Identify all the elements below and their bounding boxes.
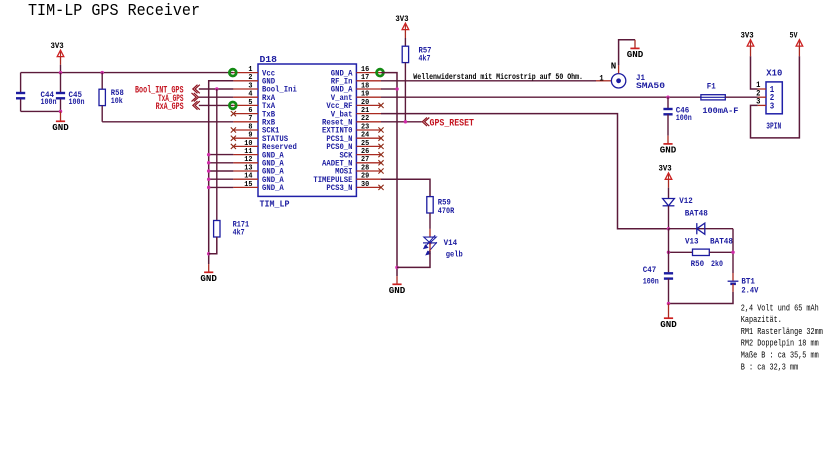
resistor R58 <box>101 73 103 90</box>
pin 7 RxB <box>233 121 258 123</box>
svg-text:16: 16 <box>361 66 370 74</box>
pin 19 V_ant <box>356 96 381 98</box>
svg-text:26: 26 <box>361 148 370 156</box>
node junction gnd bus <box>207 153 211 157</box>
wire GND_A pin to gnd bus <box>209 162 234 164</box>
svg-text:15: 15 <box>244 181 253 189</box>
node junction C46 tap <box>666 95 670 99</box>
pin 17 RF_In <box>356 80 381 82</box>
op-amp U1: IC D18 TIM_LP box <box>258 64 356 196</box>
wire Reset_N net <box>381 121 422 123</box>
wire battery + vertical <box>732 229 734 273</box>
pin 13 GND_A <box>233 170 258 172</box>
ground (battery) <box>668 304 670 319</box>
svg-text:28: 28 <box>361 164 370 172</box>
unconnected pin 30 x-mark <box>378 185 383 190</box>
svg-text:GND_A: GND_A <box>262 184 284 193</box>
svg-text:GND: GND <box>52 123 69 133</box>
svg-text:F1: F1 <box>707 81 716 91</box>
node junction gnd rail <box>59 110 63 114</box>
svg-text:Wellenwiderstand mit Microstri: Wellenwiderstand mit Microstrip auf 50 O… <box>413 72 583 82</box>
ground (under C45) <box>60 111 62 121</box>
node testpoint pin1 <box>229 69 236 76</box>
svg-text:V12: V12 <box>679 196 693 206</box>
svg-text:GPS_RESET: GPS_RESET <box>430 117 475 129</box>
svg-text:2k0: 2k0 <box>711 259 723 269</box>
svg-text:5V: 5V <box>790 30 799 40</box>
svg-text:SMA50: SMA50 <box>636 81 665 91</box>
pin 2 of X10 <box>758 96 766 98</box>
wire GND net from pin2 <box>209 81 234 264</box>
wire 3V3 to X10 pin1 <box>751 56 758 89</box>
pin 1 Vcc <box>233 72 258 74</box>
unconnected pin 6 x-mark <box>231 111 236 116</box>
svg-text:2: 2 <box>248 74 253 82</box>
svg-text:100n: 100n <box>676 113 692 123</box>
unconnected pin 26 x-mark <box>378 152 383 157</box>
svg-text:GND: GND <box>660 320 677 330</box>
wire Bool_INT_GPS net <box>199 88 234 90</box>
svg-text:9: 9 <box>248 132 253 140</box>
svg-text:18: 18 <box>361 82 370 90</box>
unconnected pin 27 x-mark <box>378 160 383 165</box>
svg-text:BAT48: BAT48 <box>710 237 733 247</box>
svg-text:GND: GND <box>389 286 406 296</box>
pin 6 TxB <box>233 113 258 115</box>
connector X10 3PIN <box>766 82 782 114</box>
node junction LED return <box>395 266 399 270</box>
svg-text:3V3: 3V3 <box>741 30 754 40</box>
svg-text:4k7: 4k7 <box>233 228 245 238</box>
ground (left of R171) <box>208 264 210 272</box>
pin 21 V_bat <box>356 113 381 115</box>
ground (below LED net) <box>396 276 398 284</box>
svg-text:C47: C47 <box>643 265 657 275</box>
pin 30 PCS3_N <box>356 186 381 188</box>
battery BT1 2.4V <box>732 273 734 281</box>
svg-text:23: 23 <box>361 123 370 131</box>
svg-text:100n: 100n <box>69 97 85 107</box>
wire battery - to gnd <box>669 292 734 304</box>
svg-text:10: 10 <box>244 140 253 148</box>
svg-text:20: 20 <box>361 99 370 107</box>
pin 25 PCS0_N <box>356 145 381 147</box>
pin 16 GND_A <box>356 72 381 74</box>
wire GND_A pin to gnd bus <box>209 178 234 180</box>
svg-text:17: 17 <box>361 74 369 82</box>
unconnected pin 20 x-mark <box>378 103 383 108</box>
svg-text:TIM-LP GPS Receiver: TIM-LP GPS Receiver <box>28 1 200 20</box>
wire gnd rail <box>21 110 61 112</box>
node junction Vcc/3V3 <box>59 71 63 75</box>
pin 5 TxA <box>233 104 258 106</box>
label GPS_RESET <box>422 118 429 127</box>
svg-text:GND: GND <box>627 50 644 60</box>
pin 12 GND_A <box>233 162 258 164</box>
label TxA_GPS <box>192 93 199 102</box>
pin 3 Bool_Ini <box>233 88 258 90</box>
pin 28 MOSI <box>356 170 381 172</box>
node junction Vcc/R58 <box>100 71 104 75</box>
svg-text:5: 5 <box>248 99 253 107</box>
label RxA_GPS <box>193 101 200 110</box>
svg-text:470R: 470R <box>438 206 455 216</box>
wire J1 shield to gnd <box>619 40 635 65</box>
pin 29 TIMEPULSE <box>356 178 381 180</box>
pin 3 of X10 <box>758 104 766 106</box>
unconnected pin 24 x-mark <box>378 136 383 141</box>
node junction R50 left <box>667 251 671 255</box>
node junction Bool_Ini/R171 <box>215 87 219 91</box>
node junction V_bat/V12 <box>667 227 671 231</box>
pin 24 PCS1_N <box>356 137 381 139</box>
pin 18 GND_A <box>356 88 381 90</box>
svg-text:14: 14 <box>244 173 253 181</box>
wire V_bat net <box>381 114 669 229</box>
svg-text:BAT48: BAT48 <box>685 209 708 219</box>
svg-text:3V3: 3V3 <box>395 14 408 24</box>
svg-text:3V3: 3V3 <box>659 164 672 174</box>
wire GND_A pin to gnd bus <box>209 154 234 156</box>
wire TIMEPULSE to R59 <box>381 179 430 196</box>
unconnected pin 8 x-mark <box>231 127 236 132</box>
node junction gnd vertical <box>395 87 399 91</box>
svg-text:6: 6 <box>248 107 253 115</box>
pin 14 GND_A <box>233 178 258 180</box>
node junction gnd bus <box>207 169 211 173</box>
svg-text:Maße B : ca 35,5 mm: Maße B : ca 35,5 mm <box>741 351 819 361</box>
pin 22 Reset_N <box>356 121 381 123</box>
node junction gnd bus <box>207 177 211 181</box>
capacitor C45 <box>60 73 62 92</box>
svg-text:PCS3_N: PCS3_N <box>326 184 352 193</box>
svg-text:V13: V13 <box>685 237 699 247</box>
svg-text:D18: D18 <box>260 54 278 65</box>
fuse F1 100mA-F <box>701 95 725 100</box>
pin 8 SCK1 <box>233 129 258 131</box>
svg-text:R50: R50 <box>691 259 705 269</box>
svg-text:B : ca 32,3 mm: B : ca 32,3 mm <box>741 362 798 372</box>
connector J1 SMA50 <box>596 80 611 82</box>
svg-text:29: 29 <box>361 173 370 181</box>
svg-text:4: 4 <box>248 91 253 99</box>
node junction gnd bus <box>207 161 211 165</box>
svg-text:12: 12 <box>244 156 253 164</box>
svg-text:27: 27 <box>361 156 369 164</box>
pin 26 SCK <box>356 154 381 156</box>
pin 15 GND_A <box>233 186 258 188</box>
node junction gnd bus <box>207 186 211 190</box>
svg-text:24: 24 <box>361 132 370 140</box>
pin 23 EXTINT0 <box>356 129 381 131</box>
node junction R57/Reset_N <box>404 120 408 124</box>
pin 4 RxA <box>233 96 258 98</box>
pin 1 of X10 <box>758 88 766 90</box>
wire F1 to X10 pin2 <box>725 96 758 98</box>
svg-text:7: 7 <box>248 115 252 123</box>
svg-text:RM1 Rasterlänge 32mm: RM1 Rasterlänge 32mm <box>741 327 823 337</box>
svg-text:Kapazität.: Kapazität. <box>741 315 782 325</box>
svg-text:3PIN: 3PIN <box>766 120 781 131</box>
diode V12 BAT48 <box>663 199 675 206</box>
svg-text:3: 3 <box>756 98 760 107</box>
wire V_ant net <box>381 96 701 98</box>
node testpoint pin16 <box>377 69 384 76</box>
svg-text:19: 19 <box>361 91 370 99</box>
node junction gnd bus / R171 <box>207 252 211 256</box>
wire 3V3 to Vcc rail <box>60 65 62 73</box>
svg-text:1: 1 <box>248 66 253 74</box>
resistor R59 <box>427 197 433 213</box>
node junction R50 right <box>731 251 735 255</box>
svg-text:21: 21 <box>361 107 370 115</box>
svg-text:TIM_LP: TIM_LP <box>260 198 290 209</box>
unconnected pin 10 x-mark <box>231 144 236 149</box>
pin 20 Vcc_RF <box>356 104 381 106</box>
svg-text:8: 8 <box>248 123 253 131</box>
wire RF_In to J1 <box>381 80 596 82</box>
svg-text:22: 22 <box>361 115 370 123</box>
svg-text:25: 25 <box>361 140 370 148</box>
svg-text:RxA_GPS: RxA_GPS <box>156 101 184 113</box>
wire GND_A pin to gnd bus <box>209 186 234 188</box>
svg-text:30: 30 <box>361 181 370 189</box>
svg-text:100n: 100n <box>643 276 659 286</box>
svg-text:RM2 Doppelpin 18 mm: RM2 Doppelpin 18 mm <box>741 339 819 349</box>
unconnected pin 28 x-mark <box>378 168 383 173</box>
svg-text:11: 11 <box>244 148 253 156</box>
svg-text:GND: GND <box>200 274 217 284</box>
pin 9 STATUS <box>233 137 258 139</box>
wire pin18 GND_A <box>381 88 397 90</box>
svg-text:2,4 Volt und 65 mAh: 2,4 Volt und 65 mAh <box>741 303 819 313</box>
pin N of J1 <box>618 65 620 73</box>
svg-text:GND: GND <box>660 146 677 156</box>
svg-text:10k: 10k <box>111 96 123 106</box>
pin 10 Reserved <box>233 145 258 147</box>
svg-text:3: 3 <box>248 82 253 90</box>
resistor R171 <box>216 89 218 221</box>
LED V14 gelb <box>424 237 436 243</box>
svg-text:N: N <box>611 61 617 71</box>
capacitor C47 <box>668 229 670 273</box>
pin 11 GND_A <box>233 154 258 156</box>
svg-text:100n: 100n <box>41 97 57 107</box>
pin 2 GND <box>233 80 258 82</box>
unconnected pin 25 x-mark <box>378 144 383 149</box>
diode V13 BAT48 <box>669 228 734 230</box>
pin 27 AADET_N <box>356 162 381 164</box>
wire LED to gnd <box>429 243 431 251</box>
label Bool_INT_GPS <box>193 85 200 94</box>
resistor R50 2k0 <box>669 251 693 253</box>
node junction battery gnd <box>667 302 671 306</box>
capacitor C46 <box>667 97 669 108</box>
svg-text:4k7: 4k7 <box>419 54 431 64</box>
svg-text:1: 1 <box>599 74 603 83</box>
ground (under C46) <box>667 136 669 144</box>
svg-text:3V3: 3V3 <box>51 41 64 51</box>
ground (J1 shield) <box>634 40 636 49</box>
unconnected pin 23 x-mark <box>378 127 383 132</box>
svg-text:V14: V14 <box>444 238 458 248</box>
wire pin16 GND_A to gnd vertical <box>381 73 397 277</box>
wire Vcc rail <box>21 72 234 74</box>
svg-text:gelb: gelb <box>446 250 463 260</box>
unconnected pin 9 x-mark <box>231 136 236 141</box>
wire TxA_GPS net <box>199 96 234 98</box>
wire RxA_GPS net <box>199 104 234 106</box>
svg-text:100mA-F: 100mA-F <box>702 106 738 116</box>
wire R58 to RxB pin7 <box>102 121 233 123</box>
wire 5V to X10 pin3 <box>751 56 800 138</box>
svg-text:X10: X10 <box>766 68 782 79</box>
capacitor C44 <box>20 73 22 92</box>
node testpoint pin5 <box>229 102 236 109</box>
svg-text:2.4V: 2.4V <box>741 286 759 296</box>
svg-text:13: 13 <box>244 164 253 172</box>
wire GND_A pin to gnd bus <box>209 170 234 172</box>
svg-text:3: 3 <box>770 101 775 111</box>
